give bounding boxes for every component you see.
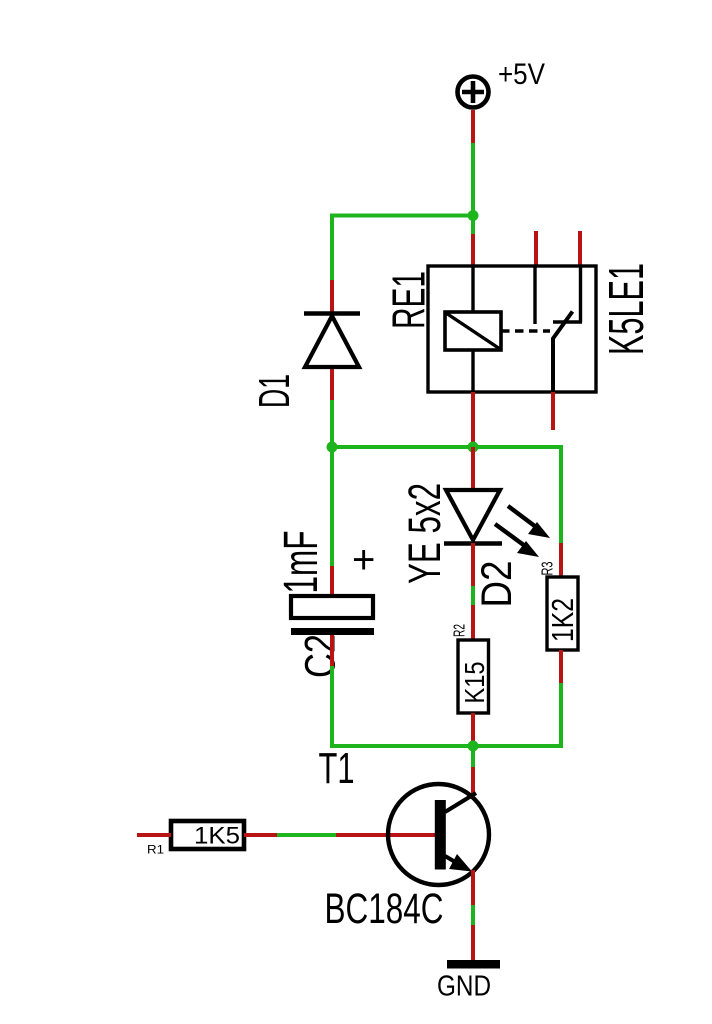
wire to R3 (red) bbox=[559, 543, 563, 577]
wire LED to R2 (red) bbox=[471, 543, 475, 586]
svg-text:R3: R3 bbox=[540, 561, 557, 575]
svg-text:K15: K15 bbox=[459, 662, 490, 704]
ground bbox=[447, 960, 500, 969]
svg-text:K5LE1: K5LE1 bbox=[600, 263, 654, 355]
wire +5V to junction (green) bbox=[471, 143, 475, 217]
node junction left bbox=[327, 442, 338, 453]
node junction center bbox=[468, 442, 479, 453]
+5V supply symbol bbox=[458, 77, 489, 108]
relay RE1 pin stubs top (red) bbox=[534, 231, 538, 266]
wire to R2 top (red) bbox=[471, 605, 475, 640]
svg-text:1K5: 1K5 bbox=[194, 823, 240, 850]
resistor R2 bbox=[458, 640, 489, 713]
svg-text:T1: T1 bbox=[319, 744, 355, 793]
transistor T1 BC184C bbox=[388, 784, 489, 885]
svg-text:C2: C2 bbox=[297, 634, 345, 678]
LED D2 bbox=[444, 490, 502, 544]
LED arrow 2 bbox=[495, 524, 539, 557]
wire C2 to bottom row (red) bbox=[330, 635, 334, 666]
wire D1 to junction row (green) bbox=[330, 400, 334, 449]
capacitor C2 bbox=[291, 596, 374, 635]
wire R1 to base (green) bbox=[277, 833, 336, 837]
wire right branch down (green) bbox=[559, 445, 563, 543]
wire junction to relay coil (green) bbox=[471, 216, 475, 235]
relay NC contact bbox=[533, 266, 536, 324]
relay bottom stub switch (red) bbox=[551, 392, 555, 430]
svg-text:GND: GND bbox=[437, 970, 491, 1002]
LED arrow 1 bbox=[508, 506, 550, 538]
wire junction row to C2 (green) bbox=[330, 447, 334, 566]
wire D1 to junction row (red) bbox=[330, 369, 334, 400]
node junction row 2 bbox=[468, 741, 479, 752]
wire emitter down (red) bbox=[471, 870, 475, 905]
svg-text:D1: D1 bbox=[250, 374, 299, 408]
svg-text:R2: R2 bbox=[452, 624, 469, 637]
wire LED to R2 (green segment) bbox=[471, 586, 475, 605]
wire R3 to junction row 2 (red) bbox=[559, 650, 563, 683]
wire to D1 (red) bbox=[330, 280, 334, 314]
wire junction to D1 branch (green horizontal) bbox=[330, 214, 473, 218]
svg-text:R1: R1 bbox=[147, 843, 164, 857]
svg-text:D2: D2 bbox=[473, 561, 521, 608]
node junction top bbox=[468, 210, 479, 221]
svg-text:+: + bbox=[352, 538, 375, 582]
diode D1 bbox=[304, 314, 360, 368]
wire emitter (green segment) bbox=[471, 905, 475, 925]
relay coil feed lines bbox=[471, 266, 474, 312]
relay actuation dashed line bbox=[501, 329, 550, 332]
svg-text:+5V: +5V bbox=[498, 58, 545, 91]
relay bottom stub coil (red) bbox=[471, 392, 475, 449]
wire junction to LED (red) bbox=[471, 447, 475, 490]
wire junction to relay coil (red) bbox=[471, 234, 475, 266]
wire to C2 (red) bbox=[330, 566, 334, 596]
wire down left branch (green) bbox=[330, 214, 334, 280]
wire +5V to junction (red) bbox=[471, 110, 475, 143]
svg-text:1mF: 1mF bbox=[275, 531, 328, 594]
svg-text:RE1: RE1 bbox=[383, 271, 435, 329]
relay moving contact bbox=[553, 312, 573, 393]
wire junction row 1 (green horizontal) bbox=[332, 445, 561, 449]
wire to GND (red) bbox=[471, 925, 475, 961]
resistor R3 bbox=[547, 577, 578, 650]
wire into R1 (red) bbox=[137, 833, 171, 837]
wire R2 to junction row 2 (red) bbox=[471, 713, 475, 746]
wire C2 to bottom row (green) bbox=[332, 666, 473, 746]
svg-text:YE 5x2: YE 5x2 bbox=[399, 483, 450, 584]
wire R1 to base (red) bbox=[244, 833, 277, 837]
svg-text:BC184C: BC184C bbox=[325, 885, 444, 933]
wire to base (red) bbox=[336, 833, 440, 837]
relay coil bbox=[445, 312, 501, 350]
resistor R1 bbox=[171, 821, 244, 849]
svg-text:1K2: 1K2 bbox=[545, 598, 580, 642]
relay RE1 box bbox=[428, 266, 596, 392]
wire junction to transistor collector (green) bbox=[471, 746, 475, 767]
wire R3 to junction row 2 (green) bbox=[471, 683, 561, 746]
wire to collector (red) bbox=[471, 767, 475, 795]
relay NO contact bbox=[553, 266, 582, 322]
